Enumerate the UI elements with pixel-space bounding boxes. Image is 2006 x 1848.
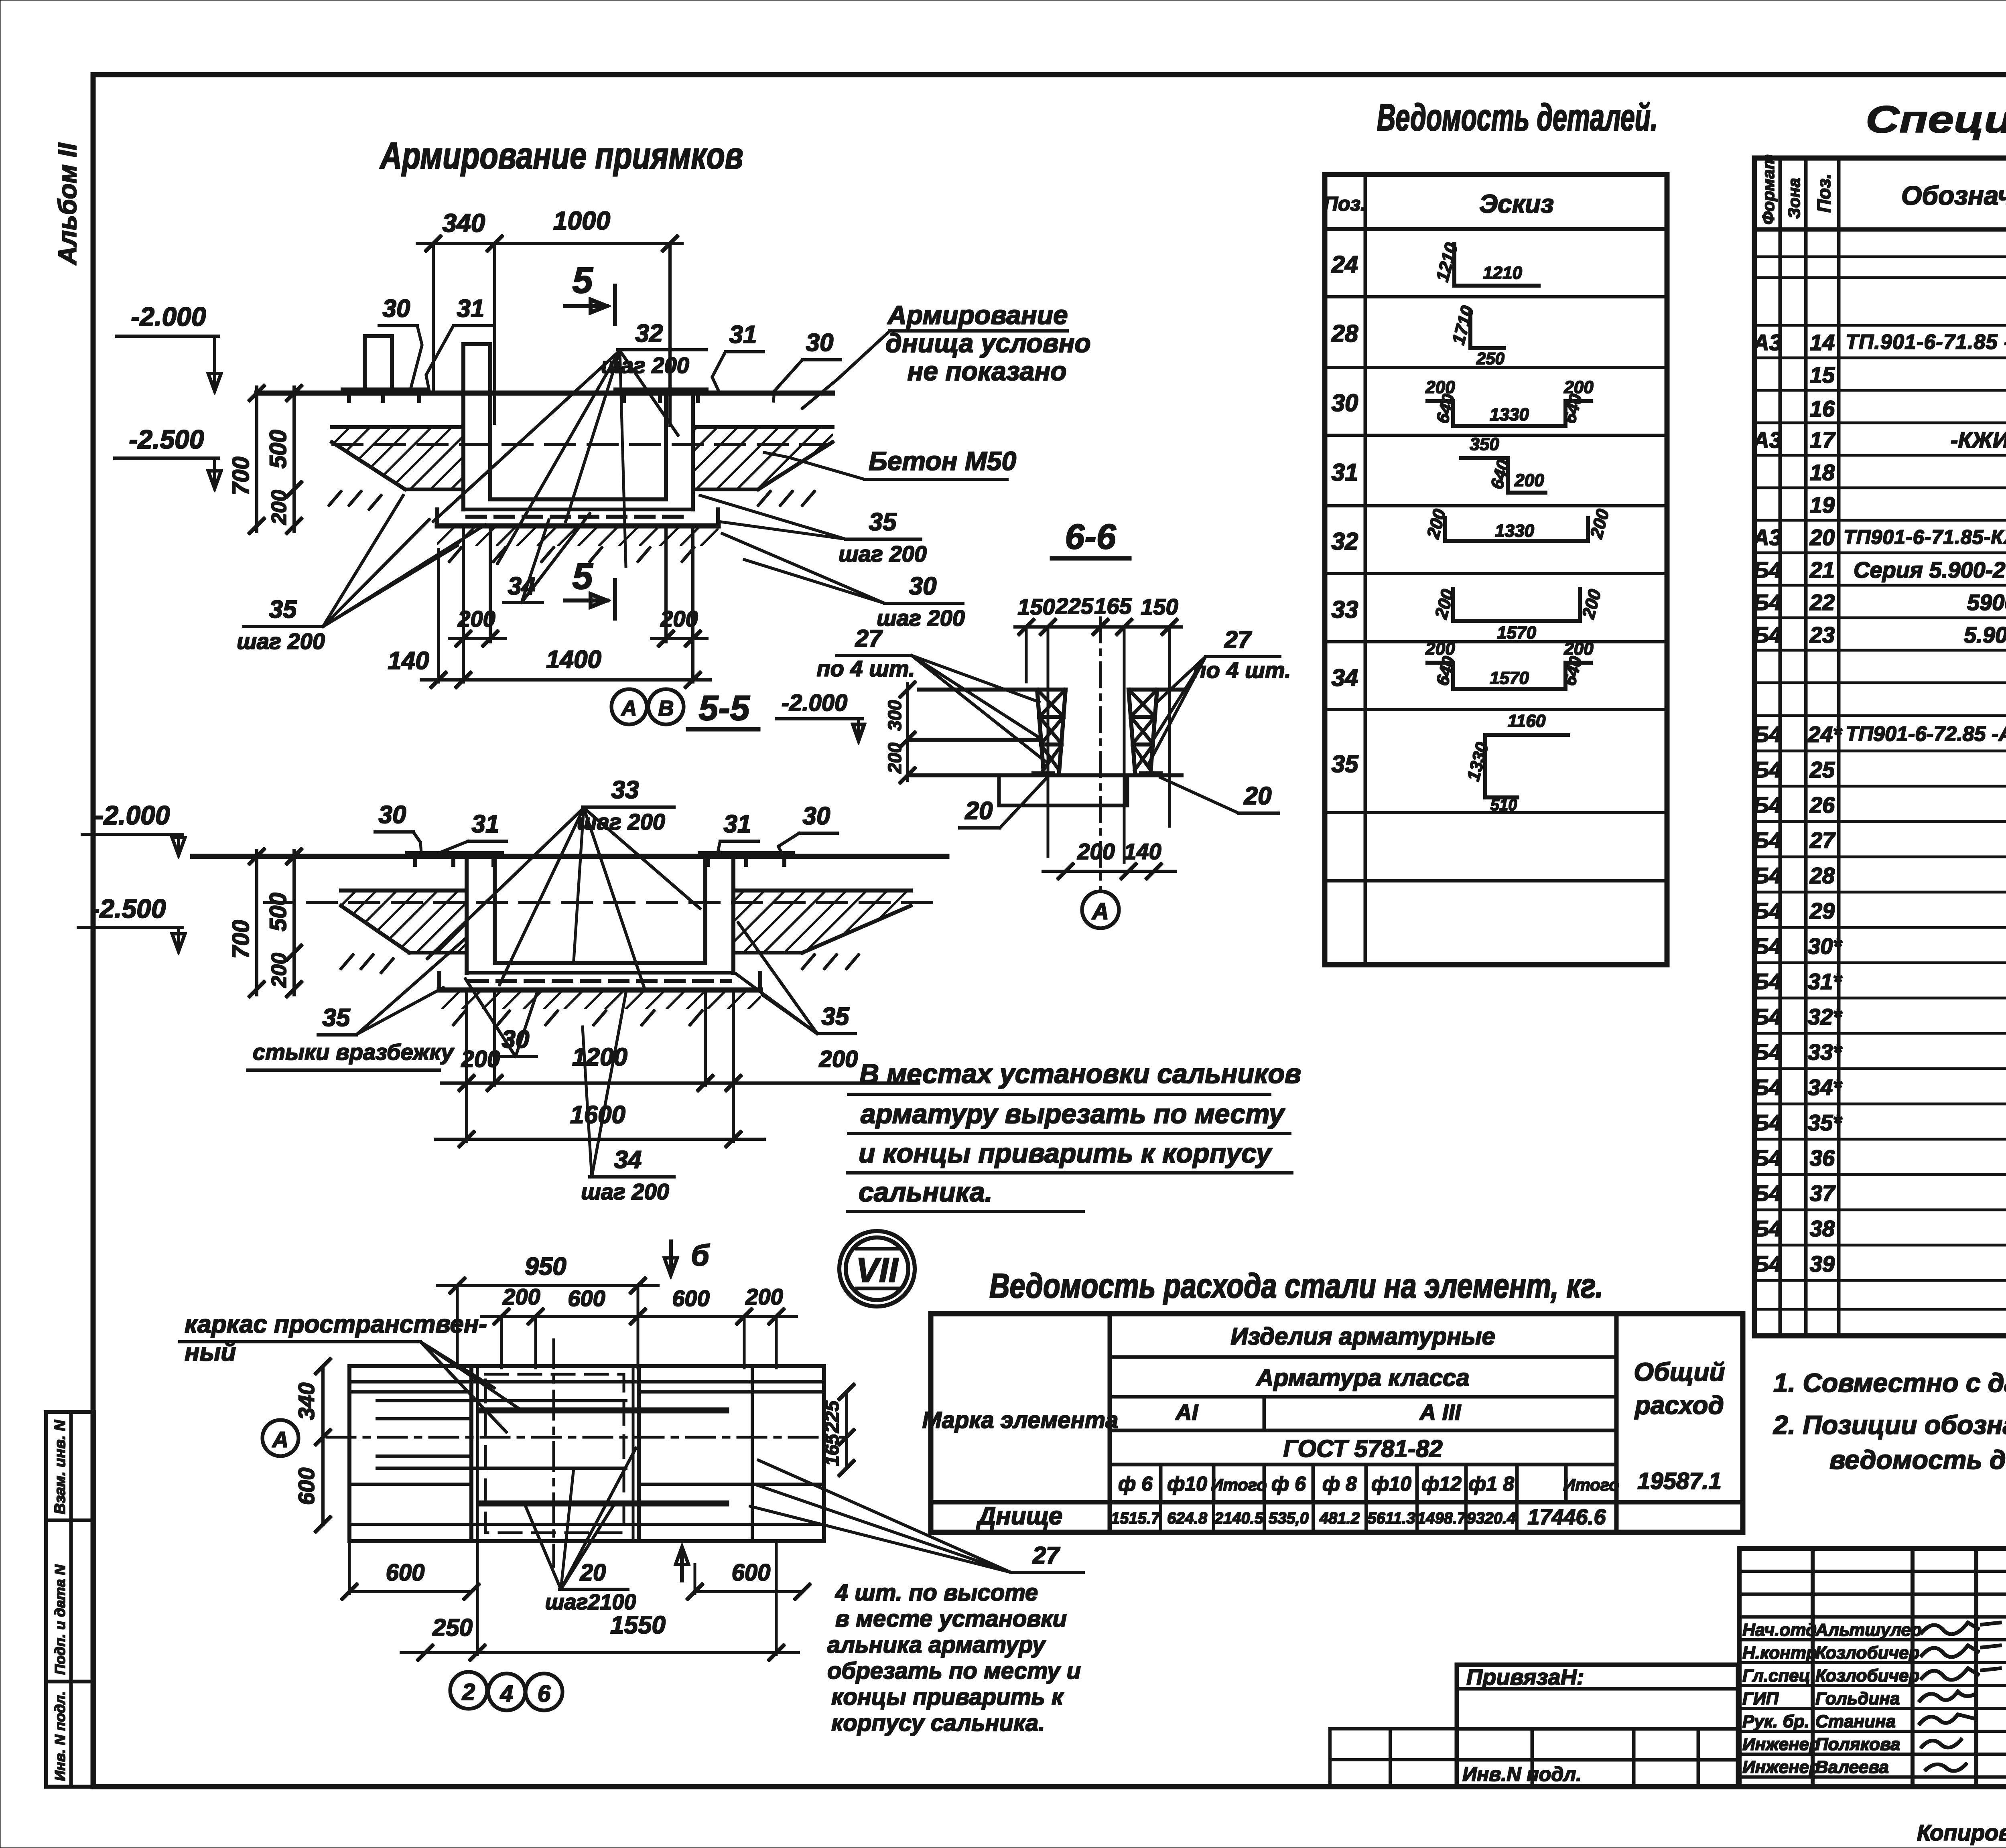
svg-text:Козлобичер: Козлобичер — [1815, 1666, 1920, 1686]
svg-text:Взам. инв. N: Взам. инв. N — [52, 1420, 69, 1514]
svg-text:200: 200 — [1077, 839, 1115, 864]
sketch 34 — [1425, 639, 1594, 689]
svg-text:Эскиз: Эскиз — [1479, 189, 1554, 218]
svg-text:ф10: ф10 — [1167, 1473, 1207, 1495]
under-floor hatch — [439, 990, 760, 1009]
svg-text:стыки вразбежку: стыки вразбежку — [253, 1039, 455, 1065]
small cells left of привязан — [1330, 1729, 1457, 1786]
svg-text:34: 34 — [614, 1146, 642, 1174]
svg-text:шаг 200: шаг 200 — [877, 605, 965, 631]
pit right wall — [664, 393, 668, 499]
pit walls — [465, 856, 468, 973]
svg-text:А3: А3 — [1752, 427, 1782, 452]
svg-text:30: 30 — [379, 801, 406, 829]
svg-text:-2.500: -2.500 — [91, 894, 166, 923]
svg-text:А: А — [621, 696, 637, 720]
svg-text:16: 16 — [1810, 396, 1835, 421]
svg-text:600: 600 — [568, 1286, 605, 1311]
svg-text:27: 27 — [855, 625, 883, 652]
svg-text:17: 17 — [1810, 427, 1836, 452]
left slab hatch — [332, 427, 463, 489]
svg-text:31*: 31* — [1808, 969, 1842, 994]
vertical dims — [256, 850, 258, 995]
svg-text:20: 20 — [580, 1560, 606, 1586]
svg-text:39: 39 — [1810, 1251, 1835, 1276]
labels of upper section — [237, 295, 1091, 654]
svg-text:Нач.отд: Нач.отд — [1742, 1620, 1817, 1640]
svg-text:днища условно: днища условно — [885, 328, 1091, 358]
note В местах установки сальников — [847, 1059, 1301, 1211]
svg-text:35: 35 — [323, 1004, 351, 1032]
svg-text:31: 31 — [472, 810, 499, 838]
svg-text:4 шт. по высоте: 4 шт. по высоте — [835, 1580, 1038, 1606]
svg-text:Зона: Зона — [1785, 178, 1803, 219]
svg-text:Поз.: Поз. — [1324, 193, 1366, 215]
section marker 5 (top) — [565, 260, 615, 324]
svg-text:200: 200 — [745, 1284, 783, 1309]
svg-text:-2.000: -2.000 — [131, 302, 206, 331]
svg-text:2140.5: 2140.5 — [1214, 1509, 1264, 1527]
svg-text:27: 27 — [1224, 626, 1252, 653]
axis dashed — [265, 901, 943, 904]
svg-text:140: 140 — [388, 647, 429, 675]
svg-text:600: 600 — [672, 1286, 709, 1311]
svg-text:1710: 1710 — [1448, 304, 1478, 347]
svg-text:1210: 1210 — [1432, 241, 1462, 284]
svg-text:15: 15 — [1810, 362, 1835, 387]
svg-text:Гл.спец: Гл.спец — [1742, 1666, 1810, 1686]
pit left wall — [462, 393, 465, 509]
svg-text:9320.4: 9320.4 — [1467, 1509, 1516, 1527]
svg-text:225: 225 — [1055, 593, 1093, 619]
left vertical dims of 6-6 — [906, 684, 909, 780]
svg-text:ф10: ф10 — [1371, 1473, 1411, 1495]
left cage — [1033, 690, 1066, 773]
svg-text:Б4: Б4 — [1753, 557, 1782, 582]
svg-text:ГИП: ГИП — [1742, 1689, 1779, 1708]
svg-text:600: 600 — [732, 1560, 771, 1586]
spec table header — [1759, 154, 2006, 225]
svg-text:Б4: Б4 — [1753, 1110, 1782, 1135]
svg-text:1000: 1000 — [553, 206, 610, 235]
slab lines — [919, 688, 1037, 691]
axis dashed line — [333, 443, 830, 446]
svg-text:200: 200 — [1586, 507, 1613, 541]
svg-text:Инженер: Инженер — [1742, 1734, 1820, 1754]
svg-text:ф12: ф12 — [1421, 1473, 1462, 1495]
svg-text:35*: 35* — [1808, 1110, 1842, 1135]
svg-text:Бетон М50: Бетон М50 — [869, 446, 1016, 476]
svg-text:Арматура класса: Арматура класса — [1255, 1364, 1470, 1391]
svg-text:Козлобичер: Козлобичер — [1815, 1643, 1920, 1663]
svg-text:Копировал: Доценко.: Копировал: Доценко. — [1917, 1820, 2006, 1845]
spec rows 24-39 — [1753, 722, 2006, 1335]
svg-text:37: 37 — [1810, 1181, 1836, 1206]
dashed inner pit — [485, 1374, 624, 1533]
svg-text:Полякова: Полякова — [1815, 1734, 1900, 1754]
svg-text:20: 20 — [1244, 782, 1272, 810]
svg-text:арматуру вырезать по месту: арматуру вырезать по месту — [861, 1099, 1285, 1129]
svg-text:19587.1: 19587.1 — [1637, 1468, 1722, 1494]
svg-text:31: 31 — [1332, 459, 1358, 486]
circles 2 4 6 — [450, 1672, 487, 1709]
svg-text:34: 34 — [1332, 664, 1358, 691]
ground line — [257, 391, 832, 396]
svg-text:Итого: Итого — [1563, 1475, 1619, 1494]
svg-text:31: 31 — [457, 295, 485, 323]
svg-text:ф 6: ф 6 — [1118, 1473, 1153, 1495]
top rebar with hooks left — [343, 388, 427, 392]
svg-text:640: 640 — [1559, 654, 1586, 688]
svg-text:200: 200 — [819, 1046, 858, 1072]
lower section dims and labels — [78, 776, 919, 1204]
svg-text:36: 36 — [1810, 1145, 1835, 1170]
svg-text:1200: 1200 — [572, 1043, 627, 1071]
svg-text:каркас пространствен-: каркас пространствен- — [185, 1310, 487, 1338]
svg-text:Гольдина: Гольдина — [1815, 1689, 1900, 1708]
svg-text:24: 24 — [1331, 251, 1358, 278]
svg-text:140: 140 — [1124, 839, 1161, 864]
center axis — [553, 1340, 555, 1566]
svg-text:А3: А3 — [1752, 330, 1782, 355]
svg-text:28: 28 — [1809, 863, 1835, 888]
svg-text:35: 35 — [269, 596, 297, 623]
svg-text:VII: VII — [856, 1251, 899, 1290]
svg-text:сальника.: сальника. — [859, 1177, 993, 1207]
svg-text:200: 200 — [268, 490, 291, 525]
svg-text:150: 150 — [1017, 594, 1055, 619]
dim 140 / 1400 — [388, 550, 710, 687]
svg-text:Формат: Формат — [1759, 154, 1778, 225]
svg-text:2. Позиции обозначенные з: 2. Позиции обозначенные знаком * смотрит… — [1773, 1410, 2006, 1440]
section marker б (bottom right) — [680, 1552, 684, 1580]
svg-text:ГОСТ 5781-82: ГОСТ 5781-82 — [1283, 1435, 1442, 1462]
svg-text:Б4: Б4 — [1753, 969, 1782, 994]
svg-text:В: В — [658, 696, 674, 720]
svg-text:22: 22 — [1809, 590, 1835, 615]
svg-text:2: 2 — [462, 1679, 475, 1705]
svg-text:38: 38 — [1810, 1216, 1835, 1241]
svg-text:5: 5 — [572, 260, 593, 301]
note 27 / 4 шт по высоте — [750, 1460, 1083, 1736]
svg-text:Б4: Б4 — [1753, 722, 1782, 747]
svg-text:А3: А3 — [1752, 525, 1782, 550]
svg-text:950: 950 — [525, 1253, 566, 1280]
circled A left — [262, 1420, 298, 1456]
svg-text:32*: 32* — [1808, 1004, 1842, 1029]
svg-text:200: 200 — [1514, 471, 1544, 490]
svg-text:Б4: Б4 — [1753, 898, 1782, 923]
sketch 35 — [1463, 711, 1568, 814]
svg-text:35: 35 — [822, 1003, 850, 1030]
svg-text:-2.500: -2.500 — [129, 424, 204, 454]
svg-text:А: А — [1091, 899, 1109, 925]
svg-text:ТП.901-6-71.85 -КЖИ.1.1.01: ТП.901-6-71.85 -КЖИ.1.1.01 — [1846, 331, 2006, 354]
svg-text:Армирование: Армирование — [887, 300, 1068, 330]
svg-text:21: 21 — [1809, 557, 1835, 582]
left vertical dims 340 600 — [322, 1366, 324, 1524]
svg-text:Валеева: Валеева — [1815, 1757, 1889, 1777]
svg-text:корпусу сальника.: корпусу сальника. — [831, 1710, 1045, 1736]
svg-text:Ведомость деталей.: Ведомость деталей. — [1377, 96, 1658, 139]
svg-text:шаг2100: шаг2100 — [545, 1590, 636, 1614]
svg-text:Ведомость расхода стали на: Ведомость расхода стали на элемент, кг. — [989, 1267, 1603, 1305]
svg-text:32: 32 — [636, 320, 663, 347]
right slab hatch — [733, 891, 911, 953]
svg-text:31: 31 — [724, 810, 751, 838]
svg-text:в месте установки: в месте установки — [835, 1606, 1067, 1632]
svg-text:165: 165 — [1094, 593, 1132, 619]
signature table — [1739, 1548, 2006, 1786]
signatures squiggles — [1920, 1623, 2000, 1771]
svg-text:не показано: не показано — [907, 356, 1066, 386]
svg-text:1515.7: 1515.7 — [1111, 1509, 1161, 1527]
left stamp strip outside frame — [46, 1412, 94, 1787]
svg-text:по 4 шт.: по 4 шт. — [1192, 657, 1291, 683]
circles A B and section label 5-5 — [611, 688, 758, 729]
svg-text:1600: 1600 — [570, 1101, 625, 1129]
svg-text:А: А — [272, 1427, 288, 1452]
svg-text:Б4: Б4 — [1753, 590, 1782, 615]
svg-text:-2.000: -2.000 — [95, 800, 170, 830]
svg-text:шаг 200: шаг 200 — [581, 1179, 669, 1204]
pit floor — [495, 961, 705, 964]
sketch 28 — [1448, 304, 1504, 368]
svg-text:1550: 1550 — [610, 1611, 666, 1639]
left wall curb — [463, 344, 490, 393]
floor rebar dashed — [467, 515, 689, 518]
section marker 5 (bottom) — [565, 556, 615, 619]
svg-text:расход: расход — [1634, 1391, 1724, 1420]
svg-text:26: 26 — [1809, 792, 1835, 818]
svg-text:ТП901-6-72.85 -АС5: ТП901-6-72.85 -АС5 — [1846, 722, 2006, 746]
svg-text:шаг 200: шаг 200 — [839, 541, 927, 566]
svg-text:Б4: Б4 — [1753, 933, 1782, 959]
svg-text:300: 300 — [884, 700, 905, 731]
svg-text:ф1 8: ф1 8 — [1468, 1473, 1514, 1495]
svg-text:Б4: Б4 — [1753, 1039, 1782, 1065]
svg-text:Инв. N подл.: Инв. N подл. — [52, 1691, 68, 1781]
svg-text:250: 250 — [1476, 349, 1504, 368]
svg-text:1570: 1570 — [1490, 668, 1529, 688]
svg-text:30: 30 — [383, 295, 410, 323]
spec table grid — [1754, 158, 2006, 1336]
svg-text:14: 14 — [1810, 330, 1835, 355]
svg-text:шаг 200: шаг 200 — [237, 629, 325, 654]
svg-text:альника арматуру: альника арматуру — [827, 1632, 1046, 1658]
svg-text:500: 500 — [265, 430, 291, 469]
svg-text:б: б — [691, 1239, 710, 1272]
sketch 30 — [1425, 377, 1594, 426]
svg-text:5.900-2: 5.900-2 — [1964, 622, 2006, 647]
svg-text:25: 25 — [1809, 757, 1835, 782]
svg-text:27: 27 — [1809, 828, 1836, 853]
svg-text:19: 19 — [1810, 492, 1835, 517]
svg-text:5611.3: 5611.3 — [1367, 1509, 1415, 1527]
svg-text:Изделия арматурные: Изделия арматурные — [1230, 1323, 1495, 1350]
svg-text:Н.контр: Н.контр — [1742, 1643, 1817, 1663]
svg-text:33*: 33* — [1808, 1039, 1842, 1065]
svg-text:1498.7: 1498.7 — [1417, 1509, 1467, 1527]
ground line — [193, 854, 947, 859]
svg-text:30*: 30* — [1808, 933, 1842, 959]
svg-text:Серия 5.900-2: Серия 5.900-2 — [1854, 557, 2005, 582]
sketch 31 — [1461, 434, 1545, 493]
svg-text:Б4: Б4 — [1753, 1004, 1782, 1029]
svg-text:А III: А III — [1419, 1400, 1462, 1425]
svg-text:33: 33 — [611, 776, 639, 804]
svg-text:Б4: Б4 — [1753, 863, 1782, 888]
svg-text:5900-2: 5900-2 — [1967, 590, 2006, 615]
wall dims 200 200 — [449, 529, 707, 682]
svg-text:1. Совместно с данным см.: 1. Совместно с данным см. л. л. АС 3, 4,… — [1773, 1368, 2006, 1398]
svg-text:Днище: Днище — [976, 1502, 1062, 1530]
left slab hatch — [341, 891, 467, 953]
svg-text:34*: 34* — [1808, 1075, 1842, 1100]
svg-text:Б4: Б4 — [1753, 1075, 1782, 1100]
svg-text:20: 20 — [1809, 525, 1835, 550]
svg-text:165: 165 — [822, 1434, 843, 1466]
svg-text:700: 700 — [228, 920, 254, 959]
circled A — [1082, 891, 1119, 928]
svg-text:Станина: Станина — [1815, 1712, 1896, 1731]
svg-text:18: 18 — [1810, 460, 1835, 485]
svg-text:Подп. и дата N: Подп. и дата N — [52, 1564, 68, 1675]
svg-text:ведомость деталей.: ведомость деталей. — [1829, 1445, 2006, 1475]
svg-text:33: 33 — [1332, 596, 1358, 623]
svg-text:Спецификация днища: Спецификация днища — [1866, 98, 2006, 141]
svg-text:34: 34 — [508, 572, 536, 600]
level mark -2.500 — [114, 424, 221, 489]
soil ticks — [341, 955, 859, 973]
svg-text:по 4 шт.: по 4 шт. — [816, 656, 915, 681]
svg-text:Б4: Б4 — [1753, 792, 1782, 818]
svg-text:20: 20 — [965, 797, 993, 825]
sketch 24 — [1432, 241, 1539, 286]
svg-text:200: 200 — [268, 953, 291, 988]
svg-text:ф 6: ф 6 — [1271, 1473, 1306, 1495]
svg-text:Инв.N подл.: Инв.N подл. — [1462, 1763, 1582, 1785]
svg-text:-КЖИ.1.1.02: -КЖИ.1.1.02 — [1951, 427, 2006, 452]
svg-text:640: 640 — [1432, 654, 1459, 688]
svg-text:Рук. бр.: Рук. бр. — [1742, 1712, 1809, 1731]
svg-text:600: 600 — [294, 1468, 319, 1505]
svg-text:600: 600 — [386, 1560, 425, 1586]
svg-text:1570: 1570 — [1497, 623, 1536, 643]
svg-text:35: 35 — [869, 508, 897, 536]
svg-text:Б4: Б4 — [1753, 1145, 1782, 1170]
svg-text:Альбом II: Альбом II — [53, 142, 82, 266]
svg-text:200: 200 — [1578, 587, 1605, 621]
right slab hatch — [693, 427, 832, 489]
pit floor — [490, 498, 666, 501]
top rebar hooks left — [407, 852, 501, 856]
svg-text:1330: 1330 — [1463, 740, 1492, 783]
svg-text:17446.6: 17446.6 — [1527, 1505, 1606, 1529]
extension lines — [1025, 627, 1027, 682]
svg-text:1330: 1330 — [1495, 521, 1534, 541]
svg-text:30: 30 — [806, 329, 834, 357]
svg-text:535,0: 535,0 — [1269, 1509, 1309, 1527]
svg-text:350: 350 — [1470, 434, 1499, 454]
svg-text:ф 8: ф 8 — [1322, 1473, 1357, 1495]
top rebar with hooks right — [616, 388, 706, 392]
svg-text:624.8: 624.8 — [1167, 1509, 1208, 1527]
svg-text:23: 23 — [1809, 622, 1835, 647]
spec rows 14-23 — [1752, 330, 2006, 714]
svg-text:481.2: 481.2 — [1319, 1509, 1360, 1527]
svg-text:340: 340 — [443, 209, 485, 237]
svg-text:Итого: Итого — [1211, 1475, 1267, 1494]
svg-text:35: 35 — [1332, 751, 1359, 777]
outer rect — [349, 1366, 824, 1541]
svg-text:Армирование приямков: Армирование приямков — [380, 134, 743, 176]
left vertical dims 700/500/200 — [228, 386, 301, 533]
sketch 32 — [1423, 507, 1613, 541]
svg-text:и концы приварить к корпусу: и концы приварить к корпусу — [859, 1138, 1273, 1168]
svg-text:Б4: Б4 — [1753, 622, 1782, 647]
svg-text:Альтшулер: Альтшулер — [1815, 1620, 1922, 1640]
horizontals — [349, 1381, 824, 1383]
svg-text:1400: 1400 — [546, 646, 601, 673]
inner verticals — [470, 1366, 473, 1541]
svg-text:Марка элемента: Марка элемента — [922, 1407, 1119, 1433]
svg-text:510: 510 — [1490, 796, 1517, 814]
svg-text:концы приварить к: концы приварить к — [831, 1684, 1064, 1710]
svg-text:340: 340 — [294, 1383, 319, 1420]
under-floor hatch — [437, 526, 718, 546]
svg-text:ПривязаН:: ПривязаН: — [1466, 1664, 1584, 1690]
svg-text:Б4: Б4 — [1753, 1181, 1782, 1206]
dim 340 / 1000 — [417, 206, 682, 425]
right cage — [1129, 690, 1161, 773]
svg-text:Инженер: Инженер — [1742, 1757, 1820, 1777]
svg-text:Поз.: Поз. — [1813, 174, 1834, 213]
svg-text:31: 31 — [729, 321, 757, 349]
svg-text:5: 5 — [572, 556, 593, 597]
svg-text:640: 640 — [1487, 457, 1513, 491]
svg-text:Б4: Б4 — [1753, 828, 1782, 853]
svg-text:1210: 1210 — [1483, 263, 1522, 283]
soil ticks under slab — [329, 491, 814, 509]
svg-text:24*: 24* — [1807, 722, 1842, 747]
svg-text:ТП901-6-71.85-КЖИ.1.1.01.01: ТП901-6-71.85-КЖИ.1.1.01.01 — [1844, 526, 2006, 548]
svg-text:700: 700 — [228, 456, 254, 495]
svg-text:32: 32 — [1332, 528, 1358, 555]
svg-text:225: 225 — [822, 1400, 843, 1433]
svg-text:6: 6 — [538, 1681, 551, 1707]
svg-text:Б4: Б4 — [1753, 1216, 1782, 1241]
top rebar hooks right — [700, 852, 792, 856]
svg-text:27: 27 — [1032, 1542, 1060, 1569]
rows under doc number — [1739, 1635, 2006, 1786]
svg-text:В местах установки сальников: В местах установки сальников — [859, 1059, 1301, 1089]
right vertical dims 225 165 — [845, 1392, 848, 1468]
svg-text:-2.000: -2.000 — [782, 690, 847, 716]
svg-text:Б4: Б4 — [1753, 1251, 1782, 1276]
dims 150 225 165 150 — [1015, 626, 1182, 628]
svg-text:150: 150 — [1141, 594, 1178, 619]
svg-text:500: 500 — [265, 893, 291, 931]
svg-text:250: 250 — [432, 1614, 473, 1641]
pedestal bump — [365, 336, 392, 393]
svg-text:Общий: Общий — [1634, 1357, 1725, 1386]
svg-text:обрезать по месту и: обрезать по месту и — [827, 1658, 1081, 1684]
svg-text:6-6: 6-6 — [1065, 517, 1116, 556]
svg-text:1160: 1160 — [1508, 711, 1546, 731]
копировал line — [1917, 1820, 2006, 1848]
svg-text:29: 29 — [1809, 898, 1835, 923]
